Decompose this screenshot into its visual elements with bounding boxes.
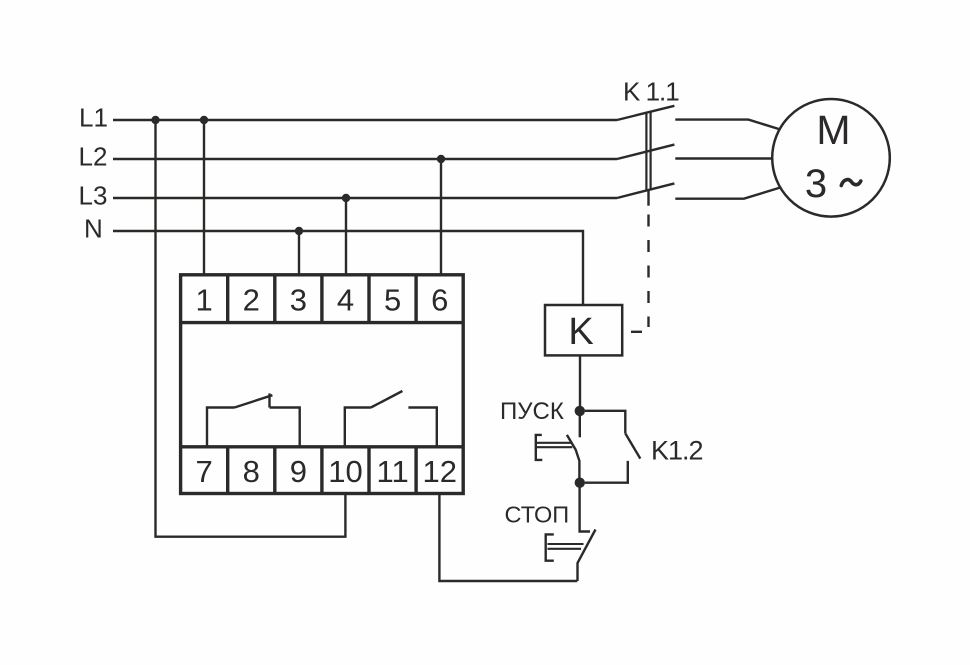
svg-text:L2: L2 (79, 142, 108, 172)
svg-text:11: 11 (377, 454, 409, 489)
svg-text:СТОП: СТОП (505, 502, 570, 528)
svg-text:1: 1 (195, 282, 212, 317)
svg-text:M: M (816, 107, 850, 153)
svg-text:N: N (84, 214, 103, 244)
svg-text:8: 8 (243, 454, 260, 489)
svg-text:9: 9 (290, 454, 307, 489)
svg-text:3: 3 (290, 282, 307, 317)
svg-text:K: K (568, 311, 593, 353)
svg-text:ПУСК: ПУСК (500, 398, 564, 425)
svg-text:10: 10 (328, 454, 362, 489)
svg-text:7: 7 (195, 454, 212, 489)
svg-text:12: 12 (422, 454, 456, 489)
svg-text:K 1.1: K 1.1 (623, 77, 679, 107)
svg-text:5: 5 (384, 282, 401, 317)
svg-text:4: 4 (337, 282, 354, 317)
svg-text:K1.2: K1.2 (651, 436, 703, 466)
svg-text:6: 6 (431, 282, 448, 317)
svg-text:3: 3 (805, 162, 827, 206)
svg-text:L1: L1 (79, 103, 108, 133)
svg-text:2: 2 (243, 282, 260, 317)
svg-text:L3: L3 (79, 181, 108, 211)
